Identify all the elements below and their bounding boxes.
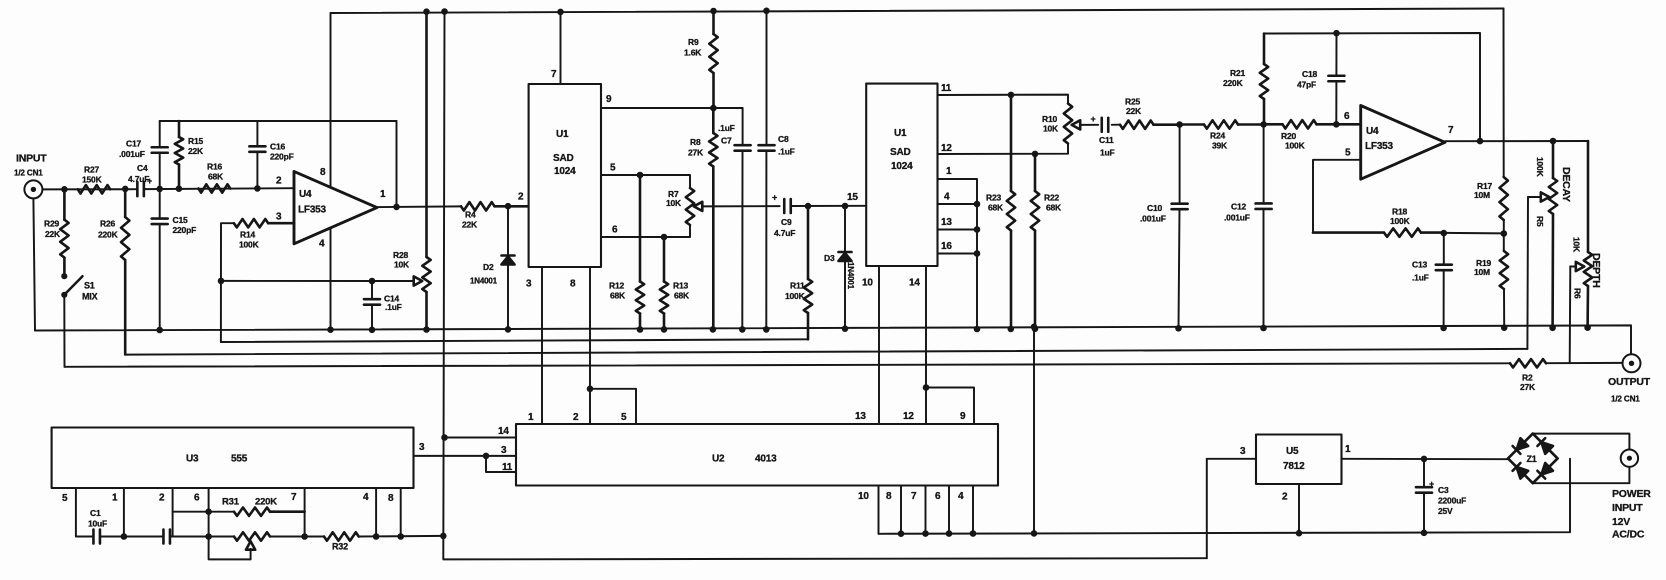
diode D3 1N4001	[824, 252, 855, 290]
svg-text:AC/DC: AC/DC	[1612, 529, 1645, 541]
svg-text:14: 14	[498, 426, 509, 437]
junction	[369, 278, 376, 285]
svg-text:1024: 1024	[891, 161, 913, 172]
svg-text:2: 2	[1282, 492, 1288, 503]
svg-text:R18: R18	[1392, 207, 1407, 217]
junction	[1501, 230, 1508, 237]
junction	[1421, 456, 1428, 463]
junction	[1176, 121, 1183, 128]
resistor R20 100K	[1264, 120, 1361, 150]
wire C14 to rail A	[371, 305, 373, 330]
svg-text:R23: R23	[986, 193, 1001, 203]
wire C10 top lead	[1179, 125, 1181, 204]
wire C16 top lead	[256, 121, 258, 146]
resistor R17 10M	[1474, 177, 1508, 220]
IC U1 SAD1024 (second)	[847, 83, 952, 289]
wire U2 pin 6 down	[948, 486, 950, 534]
trimmer R7 10K	[666, 188, 702, 225]
resistor R4 22K	[461, 202, 529, 229]
junction	[842, 325, 849, 332]
capacitor C13 .1uF	[1412, 260, 1452, 283]
svg-text:C16: C16	[270, 142, 285, 152]
wire C14 top lead	[371, 281, 373, 299]
svg-text:C13: C13	[1412, 260, 1427, 270]
wire C7 to rail A	[741, 151, 743, 330]
wire SAD2 pin 13 stub	[938, 229, 978, 231]
svg-text:R12: R12	[609, 281, 624, 291]
wire C11 to R25	[1112, 124, 1120, 126]
junction	[842, 203, 849, 210]
svg-text:3: 3	[419, 442, 425, 453]
svg-text:U2: U2	[712, 454, 725, 465]
svg-text:1024: 1024	[554, 166, 576, 177]
wire C12 top lead	[1263, 124, 1265, 203]
svg-text:10uF: 10uF	[88, 519, 107, 529]
bridge rectifier Z1	[1508, 434, 1558, 484]
junction	[1550, 138, 1557, 145]
svg-text:R21: R21	[1230, 68, 1245, 78]
resistor R24 39K	[1180, 120, 1264, 150]
junction	[254, 185, 261, 192]
junction	[710, 326, 717, 333]
svg-text:25V: 25V	[1438, 506, 1453, 516]
wire C9 to SAD2 pin 15	[792, 205, 867, 207]
resistor R15 22K	[175, 121, 204, 189]
svg-text:R13: R13	[673, 281, 688, 291]
junction	[1032, 151, 1039, 158]
wire C8 to rail A	[765, 151, 767, 330]
junction	[922, 530, 929, 537]
svg-text:+: +	[1091, 114, 1096, 124]
trimmer R28 10K	[393, 12, 431, 330]
junction	[1032, 326, 1039, 333]
junction stub chain on rail A	[974, 326, 981, 333]
op-amp U4 LF353 (b)	[1344, 106, 1454, 180]
svg-text:68K: 68K	[988, 203, 1004, 213]
wire C8 top lead	[766, 11, 768, 145]
svg-text:1: 1	[112, 493, 118, 504]
svg-text:12: 12	[941, 143, 952, 154]
wire U3 pin 7 lead	[304, 488, 306, 537]
svg-text:U1: U1	[894, 128, 907, 139]
junction	[923, 384, 930, 391]
wire U3 pin5 to C1	[76, 488, 93, 537]
svg-text:100K: 100K	[1285, 141, 1306, 151]
wire U5 pin 2 down	[1298, 484, 1300, 533]
resistor R16 68K	[198, 162, 230, 193]
svg-text:U4: U4	[1366, 126, 1379, 137]
svg-text:C3: C3	[1438, 485, 1449, 495]
wire SAD2 pin 1 stub	[938, 179, 978, 329]
capacitor C18 47pF	[1297, 69, 1344, 90]
svg-text:27K: 27K	[688, 148, 704, 158]
svg-text:10: 10	[862, 278, 873, 289]
svg-text:R26: R26	[100, 219, 115, 229]
wire bridge AC1 to power jack tip	[1533, 434, 1630, 450]
wire +12V stem and bottom rail	[443, 12, 1207, 560]
svg-text:R2: R2	[1522, 373, 1533, 383]
capacitor C16 220pF	[249, 142, 293, 162]
junction	[327, 326, 334, 333]
wire SAD2 pin 4 stub	[938, 203, 978, 205]
svg-text:.001uF: .001uF	[119, 149, 145, 159]
wire feedback U4b top	[1264, 33, 1480, 141]
capacitor C7 .1uF	[718, 123, 751, 151]
svg-text:47pF: 47pF	[1297, 80, 1316, 90]
svg-text:3: 3	[1240, 446, 1246, 457]
junction	[218, 278, 225, 285]
wire power ground rail	[879, 459, 1571, 534]
junction	[1441, 230, 1448, 237]
junction	[1501, 324, 1508, 331]
switch S1 MIX	[61, 273, 97, 301]
resistor R11 100K	[785, 206, 812, 339]
junction	[1333, 121, 1340, 128]
svg-text:4: 4	[319, 239, 325, 250]
svg-text:7: 7	[911, 491, 917, 502]
svg-text:2200uF: 2200uF	[1438, 496, 1466, 506]
wire bias chain R17/R19	[1503, 9, 1506, 328]
svg-text:R8: R8	[690, 137, 701, 147]
svg-text:7: 7	[291, 492, 297, 503]
capacitor C17 .001uF	[119, 139, 168, 160]
junction	[1031, 324, 1038, 331]
svg-text:27K: 27K	[1520, 382, 1536, 392]
wire SAD1 pin 5	[601, 175, 690, 188]
wire D2 to rail A	[507, 265, 509, 329]
svg-text:8: 8	[886, 491, 892, 502]
junction	[974, 201, 981, 208]
junction	[1260, 121, 1267, 128]
svg-text:INPUT: INPUT	[16, 153, 47, 165]
svg-text:6: 6	[194, 493, 200, 504]
wire C15 top lead	[159, 189, 161, 219]
svg-text:INPUT: INPUT	[1612, 502, 1643, 514]
wire SAD1 pin 6	[601, 225, 690, 237]
svg-text:220pF: 220pF	[270, 152, 294, 162]
svg-text:SAD: SAD	[890, 147, 911, 158]
wire U2 pin 10 down	[878, 486, 880, 534]
wire D2 anode lead	[507, 206, 509, 254]
wire feedback down to output	[396, 121, 398, 207]
wire C17 top lead	[159, 121, 161, 147]
junction	[1477, 138, 1484, 145]
svg-text:11: 11	[502, 462, 513, 473]
wire U4a pin 8 to +12V	[330, 13, 332, 187]
wire C12 to rail A	[1263, 209, 1265, 328]
svg-text:R28: R28	[393, 250, 408, 260]
wire U3 pin3 to U2 pin3	[414, 455, 517, 457]
svg-text:22K: 22K	[1126, 106, 1142, 116]
svg-text:.001uF: .001uF	[1224, 213, 1250, 223]
capacitor C12 .001uF	[1224, 202, 1272, 223]
svg-text:100K: 100K	[1535, 157, 1545, 178]
wire +12 to U2 pin14	[445, 437, 517, 439]
svg-text:8: 8	[570, 279, 576, 290]
junction	[557, 9, 564, 16]
svg-text:14: 14	[909, 278, 920, 289]
op-amp U4 LF353 (a)	[276, 167, 386, 250]
wire SAD2 pin14 to U2 pin12	[925, 266, 927, 424]
svg-text:150K: 150K	[82, 175, 103, 185]
resistor R31 220K	[222, 497, 305, 516]
wire U5 pin3 down to +12 rail	[1206, 459, 1208, 558]
svg-text:22K: 22K	[45, 229, 61, 239]
wire rail D output right	[1546, 362, 1623, 364]
wire R6 wiper to rail D	[1569, 267, 1572, 364]
junction	[1333, 30, 1340, 37]
connector J1 INPUT	[14, 153, 47, 199]
svg-text:100K: 100K	[1390, 216, 1411, 226]
svg-text:3: 3	[526, 279, 532, 290]
wire C13 top lead	[1443, 233, 1445, 265]
svg-text:C11: C11	[1099, 135, 1114, 145]
wire U2 pin 4 down	[972, 486, 974, 534]
svg-text:8: 8	[388, 493, 394, 504]
svg-text:4.7uF: 4.7uF	[774, 228, 795, 238]
svg-text:C17: C17	[126, 139, 141, 149]
wire SAD1 pin3 to U2 pin1	[541, 267, 543, 424]
svg-text:U3: U3	[186, 454, 199, 465]
wire R30 to R32	[270, 536, 324, 538]
wire R32 to +12 stem	[359, 535, 443, 538]
svg-text:7: 7	[551, 69, 557, 80]
wire SAD2 pin 12 to R10	[938, 144, 1069, 155]
svg-text:6: 6	[935, 491, 941, 502]
junction	[974, 250, 981, 257]
svg-text:6: 6	[612, 225, 618, 236]
wire C2 to R30	[170, 536, 234, 538]
svg-text:D3: D3	[824, 253, 835, 263]
capacitor C15 220pF	[152, 215, 196, 235]
wire SAD2 pin10 to U2 pin13	[878, 266, 880, 424]
wire SAD2 pin 16 stub	[938, 253, 978, 255]
svg-text:C1: C1	[90, 508, 101, 518]
svg-text:2: 2	[276, 176, 282, 187]
svg-text:10M: 10M	[1474, 267, 1490, 277]
diode Z1 top-left	[1513, 438, 1529, 454]
wire U4b pin 5 jog	[1313, 160, 1361, 233]
svg-text:13: 13	[941, 217, 952, 228]
svg-text:1N4001: 1N4001	[470, 277, 498, 286]
junction	[121, 533, 128, 540]
wire C3 top lead	[1423, 459, 1425, 487]
junction	[1584, 324, 1591, 331]
svg-text:U4: U4	[299, 189, 312, 200]
capacitor C10 .001uF	[1140, 203, 1188, 224]
wire bracket to U2 pin5	[590, 389, 636, 424]
resistor R14 100K	[234, 219, 294, 250]
junction	[1031, 530, 1038, 537]
resistor R21 220K	[1223, 34, 1268, 125]
junction	[156, 327, 163, 334]
svg-text:LF353: LF353	[1365, 141, 1394, 152]
svg-text:R5: R5	[1535, 216, 1545, 227]
svg-text:C10: C10	[1147, 203, 1162, 213]
svg-text:13: 13	[855, 411, 866, 422]
diode Z1 bottom-left	[1513, 463, 1529, 479]
svg-text:R27: R27	[84, 165, 99, 175]
svg-text:5: 5	[1345, 148, 1351, 159]
diode D2 1N4001	[470, 256, 515, 286]
resistor R18 100K	[1313, 207, 1444, 237]
svg-text:U1: U1	[556, 129, 569, 140]
wire D3 to rail A	[844, 262, 846, 329]
svg-text:R6: R6	[1573, 288, 1583, 299]
diode Z1 bottom-right	[1537, 463, 1553, 479]
svg-text:7: 7	[1448, 125, 1454, 136]
svg-text:.1uF: .1uF	[1412, 273, 1429, 283]
wire R14 left to rail B	[221, 223, 234, 342]
resistor R13 68K	[660, 237, 690, 329]
wire SAD1 pin 9	[601, 107, 743, 109]
junction	[1440, 325, 1447, 332]
svg-text:R25: R25	[1125, 97, 1140, 107]
svg-text:1N4001: 1N4001	[846, 262, 855, 290]
svg-text:1: 1	[380, 189, 386, 200]
svg-text:C9: C9	[781, 217, 792, 227]
svg-text:9: 9	[606, 94, 612, 105]
svg-text:R11: R11	[790, 281, 805, 291]
junction	[946, 530, 953, 537]
svg-text:7812: 7812	[1283, 461, 1305, 472]
junction	[763, 8, 770, 15]
junction	[369, 327, 376, 334]
svg-text:S1: S1	[84, 281, 95, 291]
svg-text:R16: R16	[207, 162, 222, 172]
svg-text:4: 4	[363, 492, 369, 503]
svg-text:220K: 220K	[98, 230, 119, 240]
wire U4a pin 4 to rail A	[330, 228, 332, 330]
connector J2 OUTPUT	[1608, 354, 1651, 403]
wire U3 pin 4 lead	[375, 488, 377, 537]
junction	[176, 185, 183, 192]
IC U5 7812	[1240, 435, 1351, 503]
trimmer R30	[234, 532, 270, 549]
svg-text:SAD: SAD	[553, 153, 574, 164]
svg-text:4.7uF: 4.7uF	[128, 174, 149, 184]
wire U5 pin 3	[1207, 458, 1256, 460]
junction	[805, 203, 812, 210]
capacitor C4 4.7uF	[128, 163, 152, 196]
svg-text:C8: C8	[778, 134, 789, 144]
capacitor C11 1uF	[1091, 114, 1115, 158]
resistor R26 220K	[98, 189, 129, 355]
svg-text:C15: C15	[173, 215, 188, 225]
junction	[710, 105, 717, 112]
svg-text:10K: 10K	[394, 260, 410, 270]
resistor R32	[324, 532, 359, 551]
wire R5 wiper	[1528, 196, 1541, 198]
junction	[205, 508, 212, 515]
resistor R29 22K	[44, 189, 69, 276]
junction	[1008, 326, 1015, 333]
svg-text:U5: U5	[1286, 446, 1299, 457]
wire pin2 to R31	[173, 511, 234, 513]
wire C18 bottom lead	[1335, 81, 1337, 124]
wire R7 wiper to C9	[702, 205, 779, 207]
wire U3 pin 2 lead	[172, 488, 174, 537]
wire C16 bottom lead	[256, 152, 258, 189]
svg-text:MIX: MIX	[82, 292, 98, 302]
svg-text:6: 6	[1344, 111, 1350, 122]
junction	[423, 326, 430, 333]
svg-text:1/2 CN1: 1/2 CN1	[1611, 395, 1640, 404]
svg-text:R31: R31	[222, 497, 240, 508]
junction	[637, 172, 644, 179]
svg-text:4: 4	[944, 192, 950, 203]
junction	[1175, 325, 1182, 332]
svg-text:OUTPUT: OUTPUT	[1608, 376, 1651, 388]
svg-text:5: 5	[621, 412, 627, 423]
wire C1 to C2	[100, 536, 163, 538]
wire bracket U2 pin 9	[926, 388, 974, 425]
svg-text:15: 15	[847, 192, 858, 203]
junction	[1260, 325, 1267, 332]
svg-text:220pF: 220pF	[173, 225, 197, 235]
wire U3 pin 1 lead	[123, 488, 125, 537]
resistor R2 27K	[1510, 359, 1546, 392]
svg-text:R24: R24	[1210, 131, 1225, 141]
junction	[898, 530, 905, 537]
diode Z1 top-right	[1537, 438, 1553, 454]
svg-text:2: 2	[573, 412, 579, 423]
wire SAD1 pin 7 to +12V	[560, 12, 562, 84]
svg-text:39K: 39K	[1212, 141, 1228, 151]
svg-text:5: 5	[610, 163, 616, 174]
wire input jack to C4	[43, 188, 137, 190]
svg-text:68K: 68K	[610, 291, 626, 301]
svg-text:C7: C7	[721, 136, 732, 146]
svg-text:R20: R20	[1281, 131, 1296, 141]
svg-text:C12: C12	[1231, 202, 1246, 212]
svg-text:68K: 68K	[674, 291, 690, 301]
wire C13 to rail A	[1443, 270, 1445, 328]
svg-text:C18: C18	[1302, 69, 1317, 79]
svg-text:8: 8	[320, 167, 326, 178]
capacitor C14 .1uF	[364, 294, 402, 313]
junction C17/C15	[156, 186, 163, 193]
junction	[661, 326, 668, 333]
wire U2 pin 8 down	[900, 486, 902, 534]
svg-text:5: 5	[62, 493, 68, 504]
svg-text:16: 16	[941, 241, 952, 252]
svg-text:+: +	[1429, 479, 1434, 489]
wire C7 top lead	[742, 108, 744, 145]
junction	[397, 533, 404, 540]
junction	[440, 533, 447, 540]
svg-text:1/2 CN1: 1/2 CN1	[14, 169, 43, 178]
svg-text:68K: 68K	[1046, 203, 1062, 213]
junction	[301, 533, 308, 540]
potentiometer R5 100K DECAY	[1535, 141, 1572, 328]
junction	[1008, 92, 1015, 99]
svg-text:4: 4	[958, 491, 964, 502]
svg-text:R9: R9	[688, 37, 699, 47]
svg-text:10K: 10K	[1043, 124, 1059, 134]
svg-text:22K: 22K	[462, 220, 478, 230]
resistor R19 10M	[1474, 251, 1508, 289]
svg-text:9: 9	[960, 411, 966, 422]
svg-text:DEPTH: DEPTH	[1590, 253, 1602, 288]
svg-text:220K: 220K	[255, 497, 277, 508]
wire D3 top lead	[844, 206, 846, 251]
wire +12V top rail	[331, 9, 1504, 14]
wire U4a output	[377, 205, 461, 208]
wire R30 wiper loop	[209, 537, 251, 560]
svg-text:D2: D2	[483, 262, 494, 272]
junction	[393, 204, 400, 211]
